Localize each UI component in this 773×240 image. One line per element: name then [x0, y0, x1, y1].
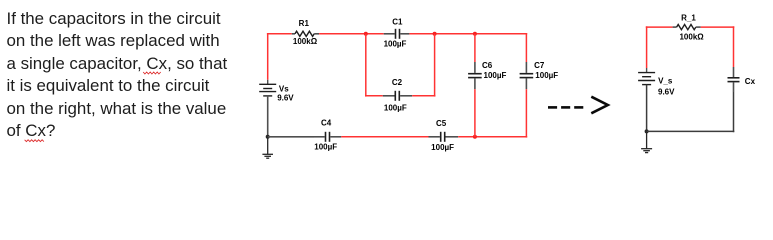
wire C7 branch upper	[525, 33, 527, 62]
wire right-circuit right vertical upper	[733, 26, 735, 67]
wire R1 to node A	[319, 33, 366, 35]
capacitor C4	[314, 132, 341, 142]
ground (right circuit)	[641, 131, 652, 152]
junction dot bottom-left	[266, 135, 270, 139]
wire C2-loop bottom left segment	[365, 95, 383, 97]
wire top-left horizontal (left corner to R1)	[267, 33, 292, 35]
wire C6 branch lower	[474, 89, 476, 137]
svg-text:R_1: R_1	[681, 13, 696, 22]
wire node C to top-right corner	[475, 33, 527, 35]
node B junction dot	[433, 32, 437, 36]
wire C1 to node B	[409, 33, 434, 35]
resistor R_1	[673, 25, 701, 30]
svg-text:C4: C4	[321, 119, 332, 128]
wire C2-loop right vertical	[434, 34, 436, 97]
svg-text:9.6V: 9.6V	[658, 87, 675, 96]
svg-text:C6: C6	[482, 61, 493, 70]
node A junction dot	[364, 32, 368, 36]
svg-text:100kΩ: 100kΩ	[679, 32, 704, 41]
svg-text:100µF: 100µF	[314, 143, 337, 152]
svg-text:R1: R1	[299, 19, 310, 28]
battery Vs	[259, 80, 276, 96]
wire C4 to C5	[341, 136, 428, 138]
capacitor Cx	[728, 67, 740, 92]
capacitor C7	[520, 62, 534, 89]
junction dot at C6 bottom	[473, 135, 477, 139]
capacitor C6	[468, 62, 482, 89]
capacitor C2	[383, 91, 412, 101]
svg-text:100µF: 100µF	[384, 40, 407, 49]
wire C2-loop left vertical	[365, 34, 367, 97]
svg-text:100µF: 100µF	[384, 104, 407, 113]
resistor R1	[292, 31, 319, 36]
svg-text:9.6V: 9.6V	[277, 94, 294, 103]
wire node B to node C	[435, 33, 475, 35]
ground (middle circuit)	[262, 137, 273, 158]
wire bottom: junction to C4	[268, 136, 314, 138]
wire C6 branch upper	[474, 34, 476, 62]
wire Cx to bottom wire	[733, 92, 735, 132]
wire battery to bottom junction	[267, 96, 269, 137]
squiggle under Cx (line 6)	[25, 140, 44, 142]
wire bottom (right circuit)	[647, 130, 735, 132]
wire C2-loop bottom right segment	[412, 95, 435, 97]
wire right-circuit left vertical	[646, 26, 648, 68]
wire battery to bottom junction (right circuit)	[646, 85, 648, 132]
arrow head	[591, 97, 608, 114]
wire right-circuit top-left segment	[646, 26, 673, 28]
capacitor C1	[384, 29, 410, 39]
svg-text:C5: C5	[436, 119, 447, 128]
svg-text:C1: C1	[392, 18, 403, 27]
squiggle under Cx (line 3)	[143, 72, 161, 74]
wire C7 branch lower	[525, 89, 527, 137]
svg-text:100µF: 100µF	[535, 71, 558, 80]
wire C5 to bottom-right corner	[458, 136, 527, 138]
wire left vertical (top corner to battery)	[267, 33, 269, 80]
svg-text:100µF: 100µF	[484, 71, 507, 80]
svg-text:Vs: Vs	[279, 84, 289, 93]
capacitor C5	[429, 132, 459, 142]
svg-text:100µF: 100µF	[431, 143, 454, 152]
wire R_1 to top-right corner	[701, 26, 735, 28]
junction dot (right circuit)	[645, 129, 649, 133]
svg-text:C2: C2	[392, 78, 403, 87]
svg-text:Cx: Cx	[745, 77, 756, 86]
svg-text:100kΩ: 100kΩ	[293, 37, 318, 46]
arrow dashes	[548, 106, 583, 109]
wire node A to C1	[366, 33, 384, 35]
battery V_s	[638, 68, 655, 85]
svg-text:V_s: V_s	[658, 76, 673, 85]
node C junction dot	[473, 32, 477, 36]
svg-text:C7: C7	[534, 61, 545, 70]
